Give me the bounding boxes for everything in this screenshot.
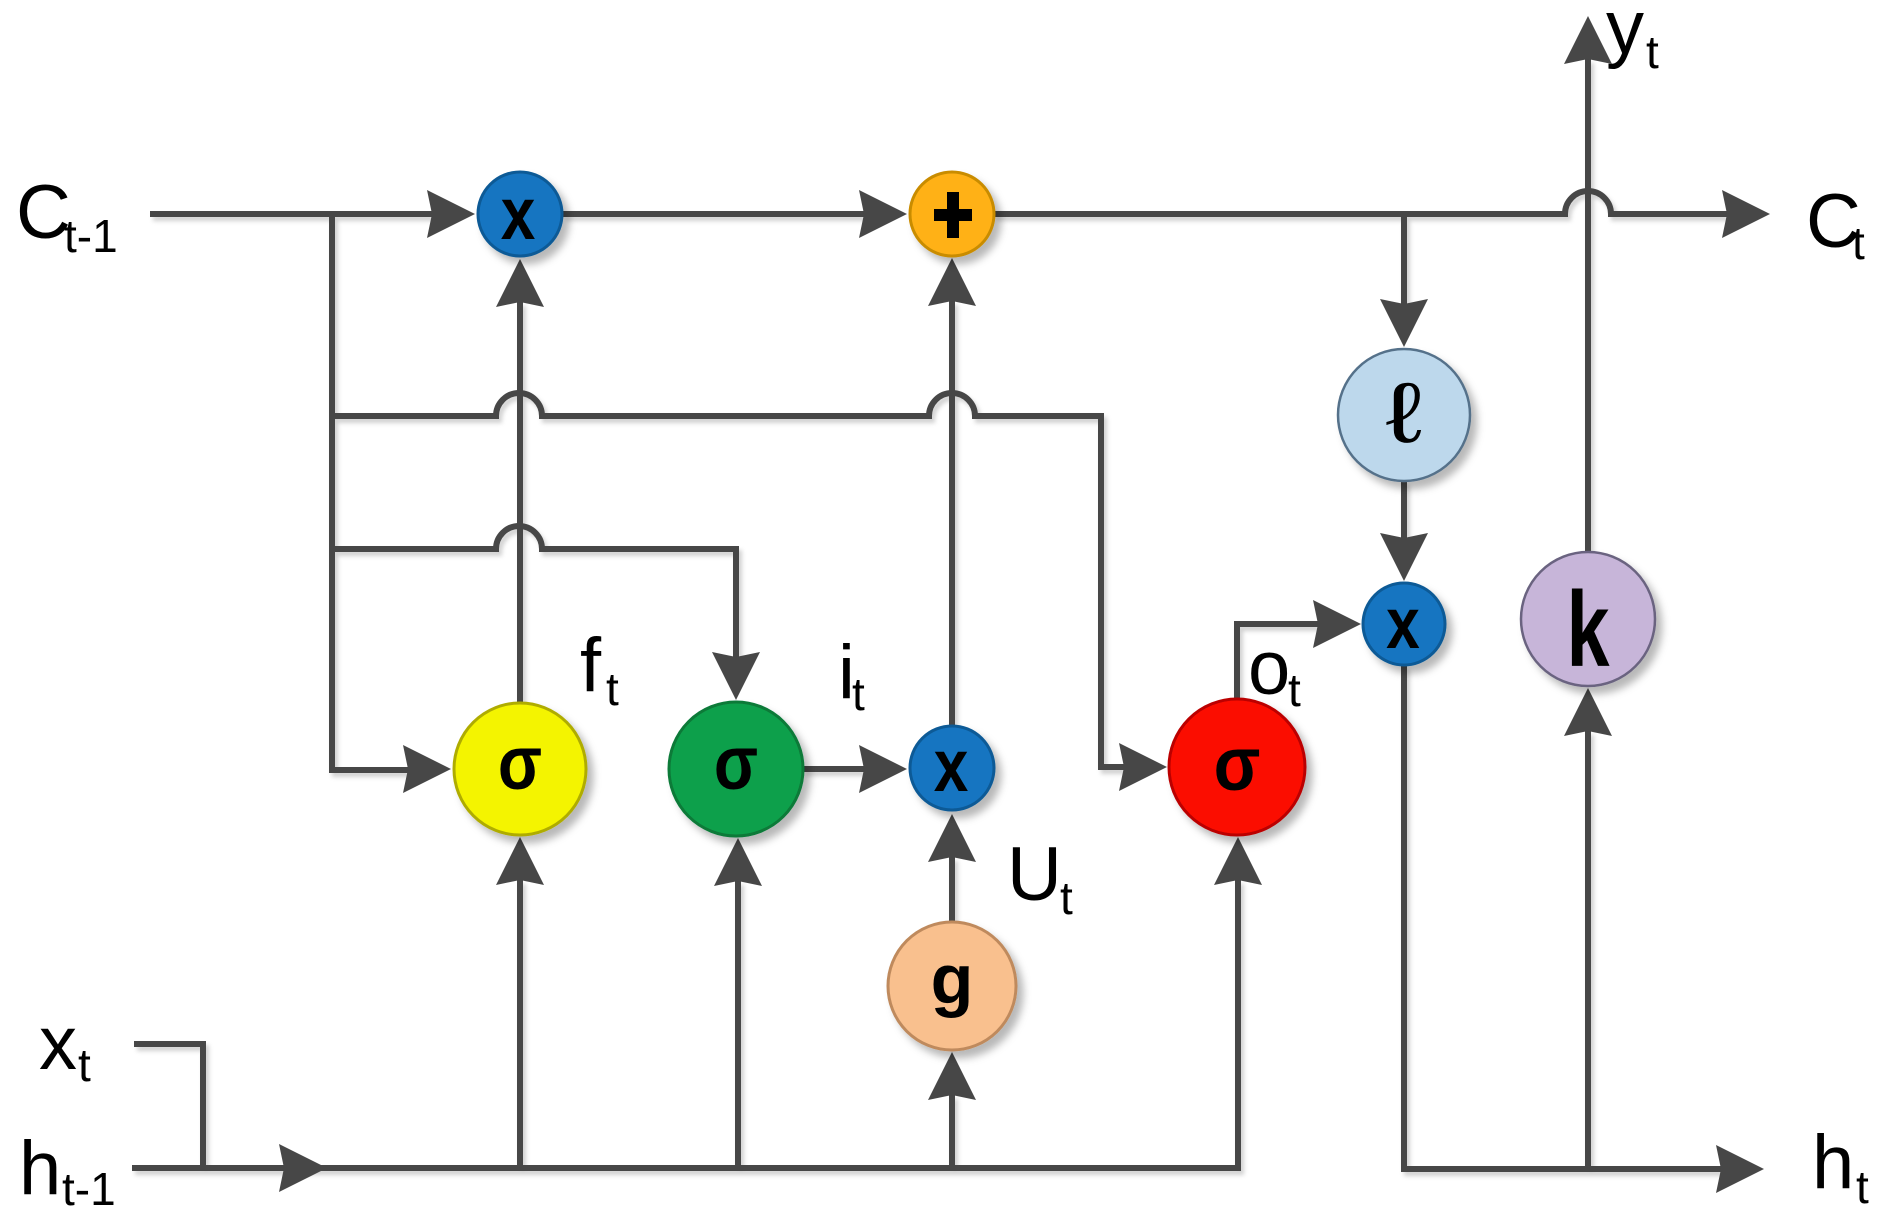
arrow up into green sigma bottom xyxy=(714,838,762,886)
svg-text:x: x xyxy=(934,725,969,807)
wire g output up to x2 xyxy=(949,857,955,924)
arrow green sigma into x2 xyxy=(859,745,907,793)
node plus xyxy=(910,172,994,256)
arrow up into k bottom xyxy=(1564,688,1612,736)
node x2 multiply xyxy=(910,726,994,810)
wire k top up to y_t xyxy=(1585,59,1591,552)
wire C line branch down into ell xyxy=(1401,217,1407,304)
wire plus to C_t with hop over y_t line xyxy=(994,191,1727,214)
wire row1 branch to red sigma with hops xyxy=(332,393,1124,767)
wire yellow sigma output up to x1 xyxy=(517,302,523,703)
node g candidate xyxy=(888,922,1016,1050)
wire branch from C line down left rail to yellow sigma xyxy=(332,211,408,770)
svg-text:t: t xyxy=(1856,1161,1869,1213)
wire x_t lead down to h line xyxy=(134,1044,203,1168)
wire x1 to plus xyxy=(563,211,864,217)
wire green sigma to x2 xyxy=(803,766,864,772)
svg-text:x: x xyxy=(1386,584,1420,664)
svg-text:ℓ: ℓ xyxy=(1385,366,1422,460)
arrow into plus left xyxy=(859,190,907,238)
node ell xyxy=(1338,349,1470,481)
svg-text:t: t xyxy=(78,1039,91,1091)
svg-text:t: t xyxy=(1060,872,1073,924)
svg-text:σ: σ xyxy=(714,720,758,805)
svg-text:x: x xyxy=(501,173,536,255)
svg-text:C: C xyxy=(16,170,71,255)
wire h line stem up into green sigma xyxy=(735,881,741,1168)
arrow up into g bottom xyxy=(928,1052,976,1100)
arrow into yellow sigma left xyxy=(403,745,451,793)
arrow down into ell xyxy=(1380,299,1428,347)
arrow ell into x3 down xyxy=(1380,533,1428,581)
node x3 multiply xyxy=(1363,583,1445,665)
wire row2 branch to green sigma top with hop xyxy=(332,526,736,657)
arrow into x1 left xyxy=(427,190,475,238)
svg-text:t-1: t-1 xyxy=(64,210,118,262)
arrow up into yellow sigma bottom xyxy=(496,837,544,885)
arrow C_t xyxy=(1722,190,1770,238)
wire x3 down and right to h_t xyxy=(1404,665,1721,1169)
svg-text:g: g xyxy=(931,940,974,1018)
wire k stem from h_t line up into k xyxy=(1585,731,1591,1169)
arrow up into red sigma bottom xyxy=(1214,837,1262,885)
svg-text:k: k xyxy=(1567,570,1610,689)
wire ell to x3 xyxy=(1401,481,1407,538)
svg-text:x: x xyxy=(39,1001,77,1086)
svg-text:f: f xyxy=(580,623,602,708)
svg-text:t: t xyxy=(1288,664,1301,716)
node green sigma i gate xyxy=(669,702,803,836)
node red sigma o gate xyxy=(1169,699,1305,835)
arrow y_t up xyxy=(1564,16,1612,64)
arrow into red sigma left xyxy=(1119,743,1167,791)
arrow down into green sigma top xyxy=(712,652,760,700)
wire C_t-1 main into x1 xyxy=(150,211,432,217)
arrow mid h line xyxy=(279,1144,327,1192)
wire o_t from red sigma to x3 xyxy=(1237,624,1318,699)
svg-text:t: t xyxy=(606,663,619,715)
svg-text:t: t xyxy=(1646,26,1659,78)
arrow h_t xyxy=(1716,1145,1764,1193)
node k xyxy=(1521,552,1655,686)
arrow up into x1 bottom xyxy=(496,259,544,307)
wire h_t-1 line with turn up into red sigma xyxy=(132,880,1238,1168)
svg-text:t: t xyxy=(852,668,865,720)
svg-text:o: o xyxy=(1248,626,1290,711)
svg-text:t-1: t-1 xyxy=(62,1163,116,1215)
node yellow sigma f gate xyxy=(454,703,586,835)
arrow g into x2 up xyxy=(928,814,976,862)
svg-text:h: h xyxy=(1812,1120,1854,1205)
wire h line stem up into yellow sigma xyxy=(517,880,523,1168)
svg-text:σ: σ xyxy=(1214,723,1261,807)
svg-text:t: t xyxy=(1852,217,1865,269)
svg-text:y: y xyxy=(1606,0,1644,70)
svg-text:h: h xyxy=(19,1126,61,1211)
svg-text:σ: σ xyxy=(498,720,542,805)
wire h line stem up into g xyxy=(949,1095,955,1168)
wire x2 output up to plus xyxy=(949,301,955,727)
svg-text:U: U xyxy=(1007,832,1062,917)
arrow o_t into x3 right xyxy=(1313,600,1361,648)
node x1 multiply xyxy=(478,172,562,256)
arrow up into plus bottom xyxy=(928,258,976,306)
